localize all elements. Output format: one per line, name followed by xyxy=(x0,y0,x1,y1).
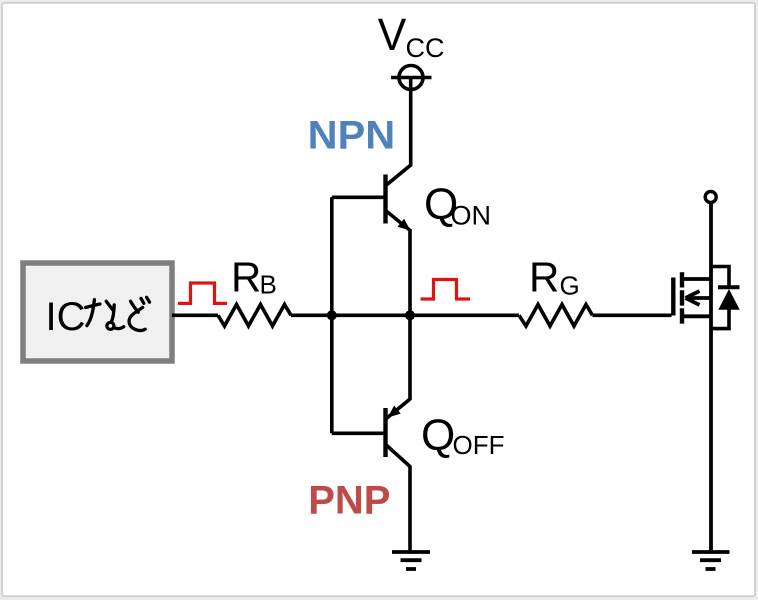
svg-text:OFF: OFF xyxy=(453,430,505,460)
svg-text:Q: Q xyxy=(421,411,455,460)
svg-text:NPN: NPN xyxy=(308,114,396,158)
svg-text:B: B xyxy=(260,270,277,300)
svg-text:CC: CC xyxy=(406,33,445,63)
svg-text:IC: IC xyxy=(46,295,86,339)
svg-text:R: R xyxy=(231,253,261,300)
svg-text:V: V xyxy=(378,9,407,60)
svg-text:G: G xyxy=(560,271,580,301)
svg-text:R: R xyxy=(529,254,559,301)
svg-text:PNP: PNP xyxy=(308,479,390,523)
svg-text:ON: ON xyxy=(451,201,492,231)
